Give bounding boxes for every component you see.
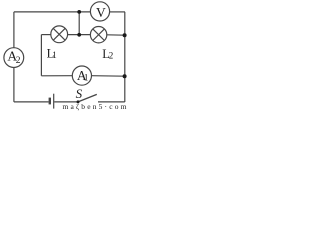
wire bottom-right (switch to corner): [98, 101, 125, 103]
wire top-left horizontal: [14, 11, 91, 13]
wire lamp-row left segment: [41, 34, 51, 36]
svg-text:S: S: [76, 86, 83, 101]
wire left vertical upper: [13, 12, 15, 48]
wire ammeter-row left segment: [41, 75, 72, 77]
switch S blade: [78, 94, 97, 102]
svg-text:2: 2: [16, 56, 21, 66]
svg-text:1: 1: [84, 73, 89, 83]
wire top-right horizontal: [110, 11, 126, 13]
wire voltmeter riser: [78, 12, 80, 35]
voltmeter U-V circle: [90, 2, 109, 21]
wire lamp-row right segment: [107, 34, 125, 36]
wire right vertical: [124, 12, 126, 102]
junction dot lamp-row right: [123, 33, 127, 37]
wire lamp-row middle segment: [68, 34, 91, 36]
ammeter A1 circle: [72, 66, 91, 85]
wire left branch vertical: [40, 35, 42, 76]
ammeter A2 circle: [4, 48, 24, 68]
svg-text:1: 1: [52, 50, 57, 60]
wire bottom-left (corner to battery): [14, 101, 49, 103]
lamp L1 circle with cross: [51, 26, 68, 43]
svg-text:maζben5·com: maζben5·com: [63, 102, 127, 111]
svg-text:2: 2: [109, 51, 114, 61]
junction dot top node: [77, 10, 81, 14]
wire ammeter-row right segment: [92, 75, 125, 78]
junction dot between lamps: [77, 33, 81, 37]
wire left vertical lower: [13, 67, 15, 102]
junction dot ammeter-row right: [123, 74, 127, 78]
svg-text:V: V: [96, 5, 106, 20]
battery cell positive long plate: [53, 94, 55, 109]
lamp L2 circle with cross: [90, 27, 106, 43]
battery cell negative thick plate: [49, 98, 51, 105]
switch pivot dot: [77, 100, 80, 103]
wire bottom-mid (battery to switch pivot): [54, 101, 78, 103]
